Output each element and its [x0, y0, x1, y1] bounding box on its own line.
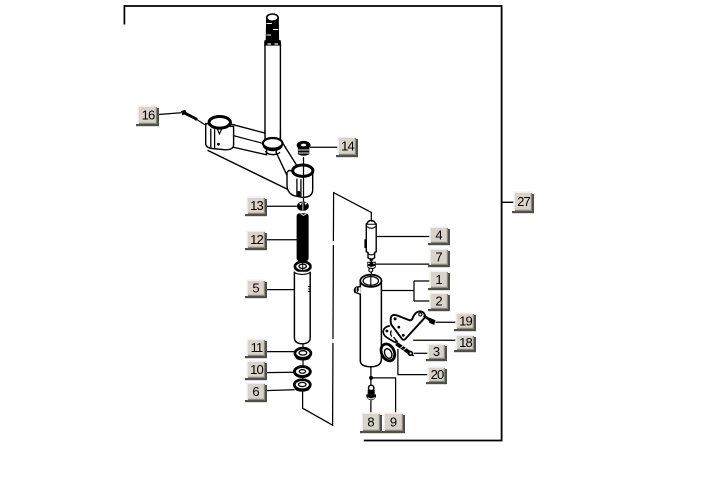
label 18	[454, 335, 476, 352]
valve nut 7	[367, 261, 376, 275]
leader line 20	[398, 349, 428, 375]
ring nut 13	[297, 201, 309, 211]
centerline through right clamp	[303, 157, 305, 202]
svg-text:2: 2	[435, 293, 442, 308]
leader line 7	[376, 263, 430, 265]
spring seat collar	[295, 262, 311, 272]
leader line 18	[413, 339, 456, 341]
centerline below shock	[370, 367, 372, 386]
leader line 10	[265, 371, 295, 373]
svg-text:18: 18	[459, 335, 472, 350]
svg-text:13: 13	[250, 198, 263, 213]
label 1	[428, 271, 450, 290]
shock absorber body	[360, 268, 381, 367]
label 9	[382, 413, 405, 433]
svg-text:9: 9	[390, 414, 397, 429]
shock left tab	[354, 287, 361, 295]
leader line 13	[265, 205, 297, 207]
label 4	[428, 227, 450, 245]
collar at tube base	[263, 138, 283, 155]
label 10	[245, 361, 267, 380]
spring 12	[297, 213, 309, 261]
leader line 8	[370, 400, 372, 413]
svg-text:19: 19	[459, 313, 472, 328]
label 8	[360, 413, 382, 433]
label 14	[336, 137, 358, 157]
screw 16	[181, 110, 205, 125]
grouping line: below item 6 down	[303, 193, 372, 426]
seal ring 11	[295, 348, 311, 360]
leader line 27	[502, 201, 515, 203]
svg-text:14: 14	[341, 138, 354, 153]
svg-text:7: 7	[435, 249, 442, 264]
label 13	[245, 197, 267, 216]
svg-text:3: 3	[433, 344, 440, 359]
label 12	[245, 231, 267, 250]
label 16	[136, 106, 159, 126]
yoke arm left section	[228, 123, 267, 155]
svg-text:10: 10	[250, 362, 263, 377]
leader line 16	[157, 113, 181, 115]
centerline tube5 to rings	[302, 344, 304, 349]
svg-text:12: 12	[250, 232, 263, 247]
steering tube lower part over arm	[266, 130, 280, 141]
right clamp top ring	[293, 165, 313, 176]
left clamp top ring	[209, 117, 230, 129]
leader bracket 1-2	[381, 281, 430, 301]
label 11	[245, 339, 267, 358]
svg-text:20: 20	[431, 367, 444, 382]
svg-text:16: 16	[142, 107, 155, 122]
svg-text:4: 4	[435, 227, 442, 242]
left clamp slit	[210, 129, 212, 148]
yoke arm right section	[276, 138, 297, 179]
boss under collar	[266, 151, 280, 155]
bolt 19	[424, 316, 436, 325]
leader line 3	[414, 352, 428, 354]
leader line 5	[265, 289, 294, 291]
left clamp body	[206, 124, 234, 150]
valve 8	[366, 385, 376, 400]
yoke arm under edge	[208, 150, 290, 190]
bolt 3	[396, 344, 413, 356]
o-ring 10	[295, 367, 311, 377]
pump rod 4	[365, 221, 376, 261]
label 19	[454, 313, 476, 331]
label 2	[428, 293, 450, 311]
left clamp bolt hole	[217, 143, 220, 146]
right clamp slit	[296, 179, 298, 197]
leader line 9	[373, 378, 396, 413]
leader line 6	[265, 389, 295, 392]
leader line 4	[376, 236, 430, 238]
frame left tick	[123, 5, 125, 24]
label 7	[428, 249, 450, 267]
label 6	[245, 383, 267, 402]
leader line 12	[265, 239, 297, 241]
svg-text:1: 1	[435, 272, 442, 287]
svg-text:27: 27	[517, 194, 530, 209]
leader line 19	[436, 321, 457, 323]
fork tube 5	[294, 272, 310, 344]
right clamp body	[287, 171, 313, 198]
svg-text:11: 11	[251, 340, 263, 355]
leader line 14	[310, 146, 338, 148]
frame top line	[124, 5, 503, 7]
axle eye	[378, 342, 397, 363]
lower clamp piece	[383, 326, 397, 343]
svg-text:6: 6	[252, 384, 259, 399]
label 3	[426, 344, 447, 361]
junction dot	[369, 376, 373, 380]
steering tube: threaded top	[265, 14, 281, 45]
yoke arm fold line	[231, 135, 266, 144]
cap nut 14	[297, 142, 309, 156]
label 27	[512, 192, 534, 213]
leader line 11	[265, 351, 295, 353]
frame right line	[501, 5, 503, 441]
svg-text:5: 5	[252, 280, 259, 295]
label 20	[426, 367, 447, 384]
frame bottom line	[364, 440, 503, 442]
bracket 18	[391, 311, 425, 340]
dust seal 6	[294, 380, 310, 391]
label 5	[245, 280, 267, 298]
steering tube: shaft	[265, 46, 280, 138]
svg-text:8: 8	[367, 414, 374, 429]
